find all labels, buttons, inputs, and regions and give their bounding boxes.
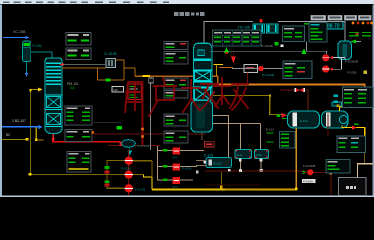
maroon header y170.6 bbox=[205, 170, 303, 171]
svg-text:E-A: E-A bbox=[237, 153, 242, 157]
junction blob bbox=[260, 169, 263, 172]
gray vert pump to reflux line bbox=[325, 51, 328, 54]
svg-text:P-102AB: P-102AB bbox=[262, 44, 273, 48]
bright elbow at 30,90 bbox=[29, 89, 31, 91]
white instrument box bbox=[112, 87, 124, 93]
junction dot E-102B leg bbox=[239, 169, 242, 172]
cyan readout box top right bbox=[325, 22, 343, 30]
gray inlet line to E-101B bbox=[64, 63, 106, 66]
drop leg below E-102B bbox=[240, 159, 241, 171]
gray vertical from instrument bbox=[149, 83, 152, 150]
condenser E-103A bbox=[253, 24, 265, 33]
green up arrow 1 bbox=[224, 47, 229, 53]
maroon drop x328 bbox=[328, 114, 329, 137]
red alarm box 2 bbox=[128, 93, 142, 100]
bright band bbox=[194, 59, 211, 62]
column T-101 packing band 2 bbox=[47, 114, 61, 125]
pump1 feed stub bbox=[107, 160, 125, 161]
drum suction piping bbox=[331, 58, 345, 70]
svg-text:P-104A: P-104A bbox=[303, 179, 313, 183]
alarm dots row bbox=[352, 22, 355, 25]
svg-text:E-102: E-102 bbox=[266, 128, 274, 132]
orange header corner down at x365 bbox=[364, 84, 365, 108]
white tick at x228 junction bbox=[228, 169, 231, 172]
distillate line with pump bbox=[232, 67, 283, 70]
red arrow into E-104 bbox=[282, 113, 288, 118]
instrument table top bbox=[213, 30, 262, 46]
data box TI-103 bbox=[65, 106, 92, 125]
feed pipe arrow bbox=[26, 36, 30, 39]
bright yellow segment on orange main bbox=[143, 75, 151, 77]
watermark char 2 bbox=[149, 78, 176, 116]
red arrow into T-101 top right bbox=[60, 63, 64, 66]
maroon discharge bbox=[314, 172, 331, 195]
pump stems bbox=[128, 150, 129, 195]
exchanger E-103 bbox=[255, 150, 269, 159]
svg-text:XC-10B: XC-10B bbox=[13, 30, 26, 34]
blue down arrow bbox=[25, 73, 28, 77]
window bottom border bbox=[0, 196, 374, 197]
watermark orange dots bbox=[141, 127, 144, 130]
svg-text:E-101B: E-101B bbox=[105, 52, 118, 56]
red arrow on loop bbox=[352, 126, 357, 130]
orange stub into overhead area bbox=[219, 67, 233, 68]
maroon vert from box bbox=[247, 73, 248, 85]
bright tan feed pipe bbox=[358, 164, 374, 178]
dim continue of x365 down bbox=[364, 142, 365, 164]
data box TI-110 bbox=[337, 136, 366, 153]
exchanger E-104 bbox=[288, 111, 320, 128]
svg-text:P-101B: P-101B bbox=[135, 188, 145, 192]
red down arrow bbox=[232, 52, 235, 57]
column T-101 band separators bbox=[45, 95, 62, 96]
drop from E-103 to header bbox=[261, 159, 262, 171]
data box FIQ-101 bbox=[67, 152, 91, 173]
white ports below exchangers bbox=[239, 159, 242, 162]
white junction dot bbox=[281, 44, 284, 47]
yellow elbow x36 bbox=[36, 128, 37, 140]
orange line from column to E-101B bbox=[62, 68, 94, 69]
svg-text:P-102AB: P-102AB bbox=[262, 73, 274, 77]
window right border bbox=[373, 5, 374, 197]
blue pipe 2 (mid left) bbox=[2, 126, 39, 128]
data box LIC-104 bbox=[309, 23, 327, 43]
data box F (TI-107/108) bbox=[343, 87, 374, 108]
drum F-101 bbox=[23, 41, 31, 62]
red dot above E-105 bbox=[350, 101, 353, 104]
olive run to E-104 bbox=[269, 114, 282, 115]
bright corner at 270,95.5 bbox=[269, 94, 271, 96]
cyan tag above E-105 bbox=[332, 102, 342, 106]
svg-text:TIC-105: TIC-105 bbox=[238, 26, 250, 30]
reflux return line bbox=[210, 50, 327, 53]
gray line over pumps region bbox=[94, 121, 121, 124]
box TI mid2 bbox=[164, 131, 188, 143]
exchanger E-102A bbox=[206, 158, 232, 168]
svg-text:0.5: 0.5 bbox=[70, 86, 75, 90]
watermark char 4 bbox=[214, 78, 248, 110]
olive main suction header y174.3 bbox=[30, 174, 124, 175]
pipe drum bottom down bbox=[26, 62, 28, 74]
gray vert from box to line bbox=[305, 42, 308, 52]
data box PIC-101 bbox=[66, 33, 91, 46]
reflux drum V-102 bbox=[338, 41, 352, 60]
data box left of E104 bbox=[280, 132, 296, 149]
red bowtie valve bright bbox=[296, 88, 304, 92]
exchanger E-105 bbox=[322, 111, 349, 128]
E-105 white cap bbox=[326, 113, 331, 127]
pump3 feed stub bbox=[107, 188, 125, 189]
bright corner at bottom bbox=[295, 187, 298, 190]
maroon line with red valve (mid right) bbox=[280, 90, 309, 91]
data box PIC-105 bbox=[283, 61, 312, 79]
red label box under vessel bbox=[205, 141, 215, 147]
svg-text:P-103A/B: P-103A/B bbox=[345, 60, 358, 64]
title text marks bbox=[174, 12, 204, 16]
white port left of E-102A bbox=[203, 161, 206, 164]
pump suction oval bbox=[122, 140, 136, 148]
tan stubs into E-102A left bbox=[196, 160, 206, 161]
red alarm box 1 bbox=[128, 84, 142, 92]
orange loop piping bbox=[94, 60, 135, 80]
pipe drum to column top bbox=[31, 52, 52, 58]
svg-text:F-101: F-101 bbox=[33, 44, 42, 48]
svg-text:E-102: E-102 bbox=[214, 162, 222, 166]
white label box bbox=[302, 179, 316, 183]
dark red drop to E-104 bbox=[308, 90, 309, 115]
column T-101 body bbox=[45, 58, 62, 134]
olive drop x270 bbox=[269, 96, 270, 115]
recycle loop lower bbox=[342, 126, 365, 143]
green valve x119 bbox=[117, 126, 123, 130]
feed pipe blue bbox=[3, 37, 26, 38]
orange header to right bbox=[217, 84, 366, 86]
yellow feed arrow into column left bbox=[31, 89, 38, 90]
green tick near E-104 inlet bbox=[276, 115, 280, 118]
tan line vessel bottom bbox=[201, 132, 202, 140]
olive riser manifold x107 bbox=[107, 160, 108, 189]
manway rect bbox=[198, 50, 205, 56]
valve pair upper green/red bbox=[104, 166, 109, 169]
window left border bbox=[0, 5, 2, 197]
box PI-104 bbox=[164, 78, 188, 89]
box FIC-103 bbox=[164, 52, 188, 65]
menu bar text marks bbox=[3, 1, 169, 3]
big tank box bottom right bbox=[339, 178, 367, 196]
E-105 loop end bbox=[340, 116, 348, 124]
svg-text:E-104: E-104 bbox=[300, 119, 308, 123]
condenser E-103B bbox=[267, 24, 279, 33]
svg-text:88.70: 88.70 bbox=[327, 24, 340, 30]
red bottoms line from T-101 bbox=[52, 134, 54, 139]
box TI mid bbox=[164, 114, 188, 126]
svg-text:D-102: D-102 bbox=[204, 154, 213, 158]
white instrument box mid bbox=[244, 65, 258, 73]
green tick left of readout bbox=[304, 23, 310, 24]
green up arrow 2 bbox=[302, 49, 307, 55]
branch 3 bbox=[157, 179, 173, 180]
exchanger E-102B bbox=[235, 150, 252, 159]
olive distillate run y95.5 bbox=[213, 95, 270, 96]
maroon header y145 bbox=[108, 145, 160, 146]
manifold vertical bbox=[157, 146, 158, 180]
overhead vapor line bbox=[204, 22, 345, 44]
toolbar button 1 bbox=[311, 15, 326, 20]
small red blob near green arrow bbox=[226, 52, 228, 54]
watermark char 1 bbox=[125, 82, 143, 144]
green micro values bbox=[267, 133, 274, 134]
band separators bbox=[194, 70, 213, 71]
red pump on line bbox=[258, 66, 263, 71]
watermark char 3 bbox=[182, 80, 218, 112]
maroon dim y185 bbox=[205, 185, 260, 186]
small instrument square on orange main bbox=[149, 78, 153, 83]
small cyan valves left of box F bbox=[334, 95, 339, 98]
red valve above pump oval bbox=[120, 141, 125, 146]
svg-text:P-103B: P-103B bbox=[347, 71, 356, 75]
svg-text:P-101A: P-101A bbox=[121, 167, 131, 171]
svg-text:P-102A: P-102A bbox=[182, 167, 191, 171]
toolbar button 3 bbox=[344, 15, 356, 20]
pump P-101B bbox=[125, 170, 133, 178]
pump discharge lines bbox=[133, 160, 152, 161]
vessel outlet line 1 bbox=[213, 115, 229, 157]
svg-text:P-104A/B: P-104A/B bbox=[303, 164, 315, 168]
data box PI-102 bbox=[66, 48, 91, 60]
pumps P-103A/B bbox=[322, 54, 329, 61]
branch 2 bbox=[157, 166, 173, 167]
bottom vessel D-101 bbox=[191, 101, 213, 133]
orange main line mid bbox=[135, 76, 218, 77]
mini status rows right edge bbox=[349, 32, 371, 36]
green valve on loop bbox=[106, 79, 111, 82]
yellow dead-end pipe left bbox=[2, 139, 26, 140]
riser at x221 bbox=[221, 172, 222, 189]
orange downcomer from E-104 bbox=[296, 128, 297, 188]
green valve right of label bbox=[275, 42, 279, 46]
svg-text:XV-3: XV-3 bbox=[172, 185, 178, 189]
maroon suction bbox=[303, 172, 308, 173]
yellow reflux elbow bbox=[214, 64, 224, 65]
cyan down arrow below oval bbox=[128, 147, 132, 154]
maroon header y134 bbox=[94, 134, 206, 135]
packing band 2 bbox=[195, 88, 211, 100]
data box LIC-102 bbox=[65, 130, 92, 142]
pump P-104 bbox=[307, 169, 313, 175]
valve pair lower green/red bbox=[104, 180, 109, 183]
bright discharge riser bbox=[151, 177, 152, 189]
menu bar bbox=[0, 0, 374, 4]
data box TI-106 bbox=[283, 26, 305, 42]
bottom main yellow line bbox=[152, 189, 297, 191]
column T-102 body bbox=[194, 43, 213, 100]
pump P-101A bbox=[125, 157, 133, 165]
green tick on loop bbox=[354, 123, 359, 125]
gray stem to red arrow bbox=[64, 63, 72, 66]
exchanger E-101B box bbox=[106, 59, 116, 68]
box small below bbox=[164, 91, 188, 99]
yellow link to E-105 bbox=[340, 107, 365, 111]
red arrow stubs at pumps bbox=[330, 56, 334, 60]
svg-text:2 BZ-107: 2 BZ-107 bbox=[12, 119, 26, 123]
toolbar button 2 bbox=[328, 15, 343, 20]
packing band 1 bbox=[195, 71, 211, 81]
olive vertical pipe x30 bbox=[30, 90, 31, 175]
red valve on overhead line bbox=[259, 19, 262, 22]
orange dot right of box bbox=[91, 131, 94, 134]
branch 1 bbox=[157, 150, 173, 151]
vessel outlet line 2 bbox=[213, 122, 261, 124]
khaki tag right bbox=[364, 71, 368, 75]
E-104 white cap bbox=[293, 113, 298, 127]
green arrow into P-104 bbox=[303, 170, 308, 174]
blue pipe 2 arrow bbox=[39, 125, 43, 129]
drop legs to exchangers bbox=[240, 123, 242, 149]
toolbar button 4 bbox=[358, 15, 371, 20]
svg-text:E-B: E-B bbox=[257, 153, 262, 157]
box FI-top bbox=[164, 42, 188, 50]
drum F-101 green level band bbox=[23, 43, 29, 46]
orange main jog down bbox=[217, 76, 218, 85]
column T-101 trays bbox=[46, 63, 61, 86]
svg-text:BZ: BZ bbox=[6, 133, 10, 137]
svg-text:XV-1: XV-1 bbox=[172, 156, 178, 160]
green left arrow at drum bbox=[350, 40, 356, 44]
pump P-101C bbox=[125, 184, 133, 192]
data box FIQ-102 bbox=[326, 160, 350, 174]
column T-101 packing band 1 bbox=[47, 97, 61, 108]
bright elbow at 29,174 bbox=[29, 173, 32, 176]
